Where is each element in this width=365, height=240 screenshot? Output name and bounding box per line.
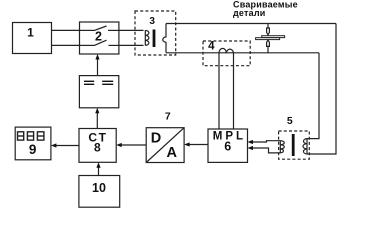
svg-text:9: 9 <box>29 142 37 157</box>
wire rectifier-2 <box>97 59 99 76</box>
svg-text:5: 5 <box>287 115 293 127</box>
svg-text:2: 2 <box>95 30 102 44</box>
wire 5-MPL upper <box>252 141 280 142</box>
wire CT-9 <box>55 145 79 147</box>
arrowhead into DA <box>184 142 190 146</box>
arrowhead into CT <box>116 143 122 147</box>
wire MPL-DA <box>189 144 209 146</box>
wire 1-2 lower <box>52 44 80 46</box>
switch blade upper <box>94 26 107 31</box>
switch contact upper left wire <box>80 29 95 31</box>
top welding wire <box>166 23 336 25</box>
wire right outer vertical (from top wire to block 5) <box>307 24 336 155</box>
block 1 (control unit) <box>13 23 52 54</box>
DA diagonal <box>146 128 184 163</box>
wire right inner vertical (from bottom wire to block 5) <box>307 53 319 139</box>
bottom welding wire <box>166 52 319 54</box>
wire DA-CT <box>121 144 147 146</box>
arrowhead into CT bottom <box>96 162 100 168</box>
switch contact lower right wire <box>109 44 119 46</box>
transformer 5 right coil <box>303 139 307 154</box>
svg-text:7: 7 <box>165 111 171 123</box>
svg-text:6: 6 <box>224 140 231 154</box>
arrowhead into MPL upper <box>248 140 254 144</box>
welded part upper plate <box>262 36 285 38</box>
dashed box 4 (current pickup sensor) <box>203 41 250 66</box>
svg-text:детали: детали <box>233 8 265 18</box>
lower electrode tip <box>267 40 270 46</box>
equals sign right <box>102 81 113 82</box>
svg-text:4: 4 <box>208 41 215 53</box>
svg-text:3: 3 <box>149 16 155 27</box>
dashed box 5 (voltage pickup transformer) <box>279 131 310 159</box>
block 2 (contactor switch) <box>80 22 119 54</box>
wire 5-MPL lower <box>252 148 280 153</box>
transformer 5 core bar <box>292 134 295 156</box>
digit indicator 1 <box>18 132 24 140</box>
switch blade lower <box>94 40 107 45</box>
block 7 D/A converter <box>146 128 184 163</box>
transformer T secondary (single turn) <box>163 24 166 53</box>
sensor coil arcs <box>219 48 234 53</box>
svg-text:A: A <box>167 145 178 161</box>
wire CT-rectifier <box>96 112 98 128</box>
svg-text:D: D <box>151 130 161 146</box>
lower electrode stub wire <box>267 46 269 52</box>
block 6 MPL <box>208 129 248 162</box>
svg-text:8: 8 <box>94 140 101 154</box>
switch contact lower left wire <box>80 44 95 46</box>
block 8 CT counter <box>79 129 116 163</box>
dashed box 3 (welding transformer) <box>135 11 176 55</box>
svg-text:10: 10 <box>92 181 106 195</box>
block 9 display <box>15 127 51 160</box>
wire 2-3 lower <box>119 44 144 46</box>
digit indicator 2 <box>27 132 33 140</box>
upper electrode stub wire <box>267 24 269 29</box>
equals sign left <box>84 81 94 82</box>
welded part lower plate <box>256 38 280 40</box>
transformer 5 left coil <box>280 141 284 153</box>
arrowhead into rectifier bottom <box>95 108 99 114</box>
sensor wire left leg to MPL <box>218 53 220 129</box>
rectifier box (= =) <box>79 76 118 108</box>
block 10 setpoint <box>79 176 120 208</box>
sensor wire right leg to MPL <box>233 53 235 129</box>
transformer T primary coil <box>145 30 149 45</box>
arrowhead into block 2 bottom <box>95 54 99 60</box>
wire 2-3 upper <box>119 29 144 31</box>
arrowhead into MPL lower <box>248 146 254 150</box>
wire 10-CT <box>98 167 100 176</box>
digit indicator 3 <box>37 132 44 140</box>
transformer T core bar <box>153 30 156 48</box>
svg-text:1: 1 <box>27 26 34 40</box>
upper electrode tip <box>267 28 270 35</box>
wire 1-2 upper <box>52 29 80 31</box>
arrowhead into block 9 <box>51 143 57 147</box>
switch contact upper right wire <box>108 29 119 31</box>
